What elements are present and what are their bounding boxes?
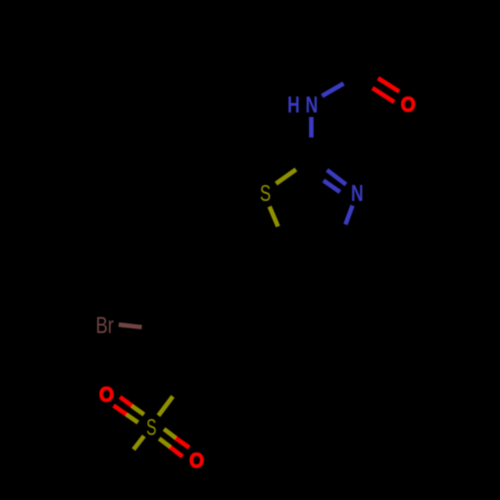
wire N-C(=O) bond (blue half) xyxy=(322,84,344,97)
svg-text:S: S xyxy=(260,180,271,206)
svg-text:N: N xyxy=(351,180,363,206)
wire S-C2 bond (olive half) xyxy=(276,170,296,184)
svg-text:N: N xyxy=(306,92,318,118)
wire C2=N double bond line 1 (blue half) xyxy=(327,170,346,185)
svg-text:S: S xyxy=(146,414,156,440)
wire N-C4 bond (blue half) xyxy=(346,206,353,225)
wire C=O double bond line 1 (red half) xyxy=(378,78,399,91)
svg-text:Br: Br xyxy=(96,312,114,338)
wire S=O1 double bond line 1 red half xyxy=(120,397,133,406)
wire Br-ring bond (brown half) xyxy=(119,325,142,328)
wire S-ring bond (olive half) xyxy=(158,396,172,415)
wire S=O2 double bond line 2 red half xyxy=(170,447,183,457)
wire S=O2 double bond line 1 red half xyxy=(176,438,190,448)
svg-text:O: O xyxy=(99,383,114,406)
svg-text:O: O xyxy=(401,94,416,117)
wire C2=N double bond line 2 (blue half) xyxy=(324,181,341,193)
svg-text:H: H xyxy=(287,92,299,118)
wire C=O double bond line 2 (red half) xyxy=(373,88,395,102)
wire S=O1 double bond line 2 olive half xyxy=(127,415,139,423)
wire S=O2 double bond line 1 olive half xyxy=(164,429,176,438)
wire HN-C2 thiazole bond (blue half) xyxy=(309,117,314,138)
wire S-C5 bond (olive half) xyxy=(270,207,279,227)
wire S-CH3 bond (olive half) xyxy=(134,436,145,450)
svg-text:O: O xyxy=(189,450,204,473)
wire S=O2 double bond line 2 olive half xyxy=(159,439,170,448)
wire S=O1 double bond line 2 red half xyxy=(114,406,128,415)
wire S=O1 double bond line 1 olive half xyxy=(132,406,144,415)
